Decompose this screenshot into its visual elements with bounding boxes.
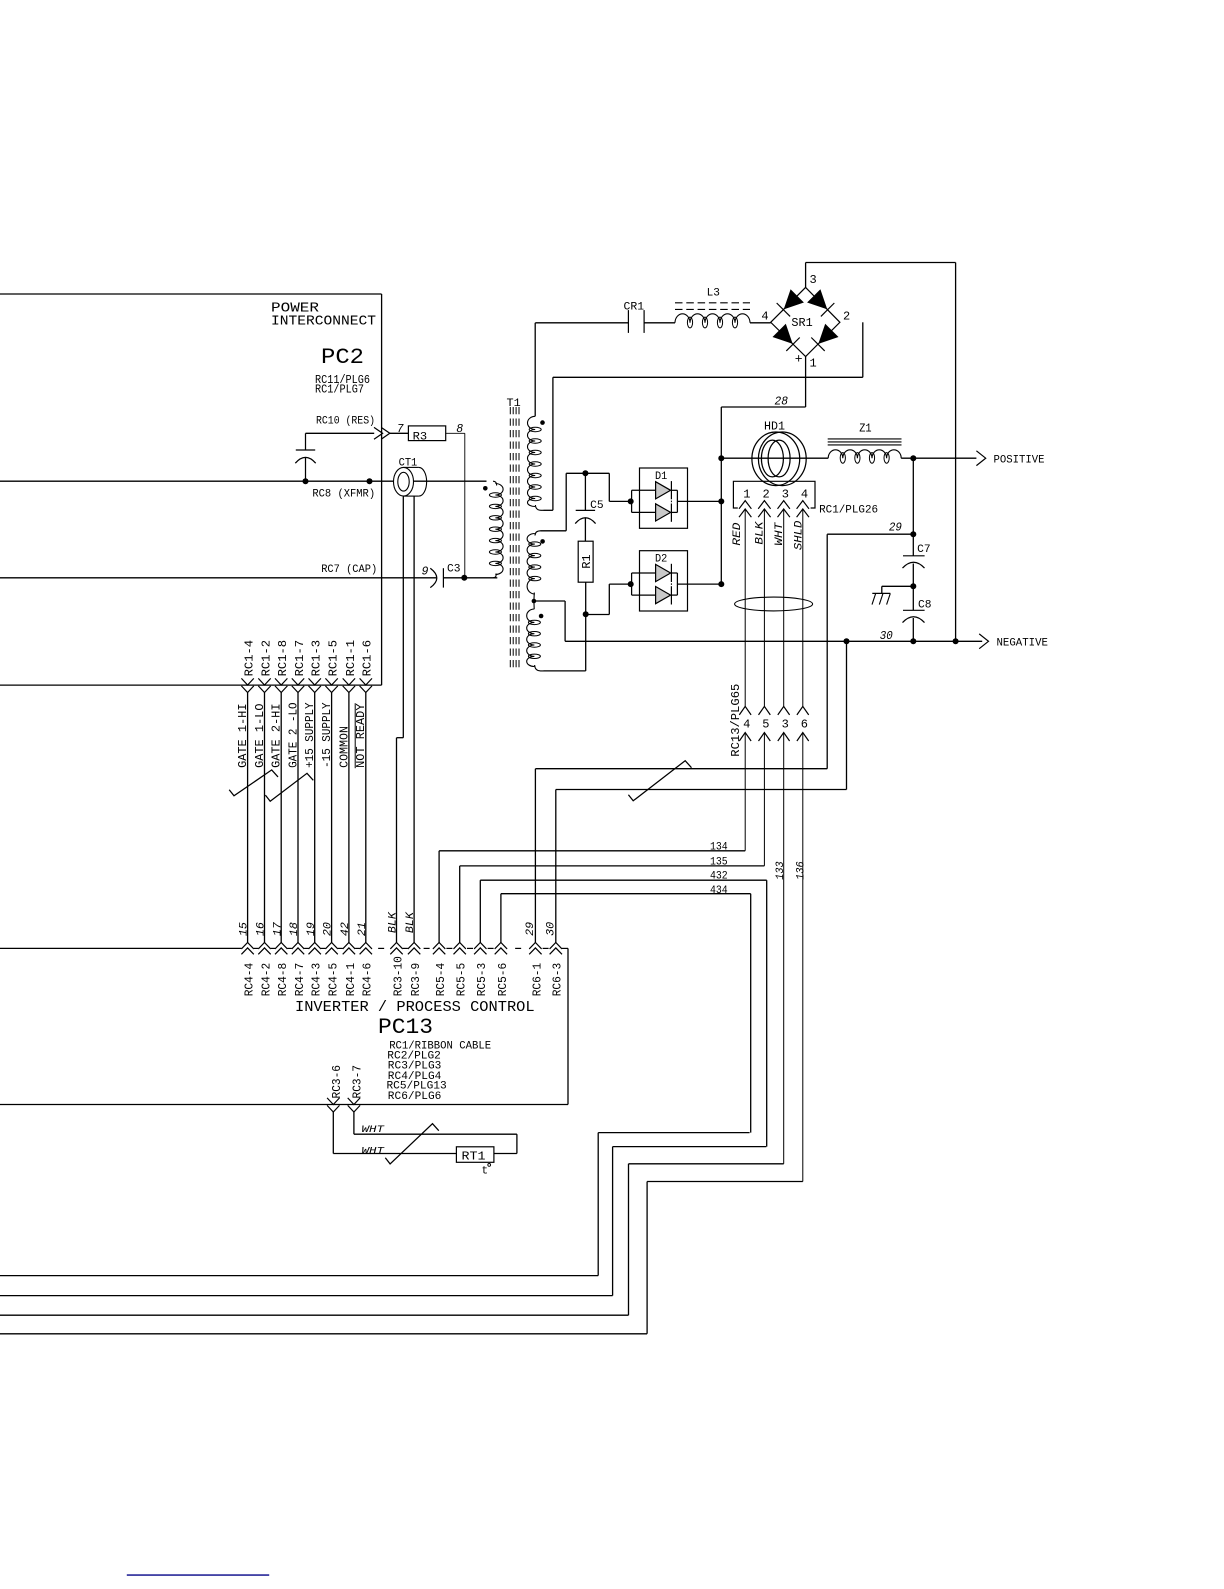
svg-text:RC4-5: RC4-5 bbox=[327, 963, 341, 997]
svg-text:WHT: WHT bbox=[362, 1124, 385, 1136]
svg-text:R3: R3 bbox=[413, 432, 428, 444]
svg-text:RC1-5: RC1-5 bbox=[327, 640, 341, 677]
svg-text:434: 434 bbox=[710, 885, 728, 897]
svg-text:RC1-7: RC1-7 bbox=[293, 640, 307, 677]
svg-text:RC6-1: RC6-1 bbox=[530, 963, 544, 997]
svg-text:RC1-4: RC1-4 bbox=[243, 640, 257, 677]
svg-text:RC5-6: RC5-6 bbox=[496, 963, 510, 997]
svg-text:WHT: WHT bbox=[362, 1145, 385, 1157]
svg-text:GATE 1-HI: GATE 1-HI bbox=[236, 704, 250, 768]
svg-text:4: 4 bbox=[761, 310, 768, 324]
svg-text:L3: L3 bbox=[707, 288, 720, 300]
svg-text:16: 16 bbox=[256, 922, 268, 936]
svg-text:C7: C7 bbox=[917, 544, 931, 556]
svg-text:NEGATIVE: NEGATIVE bbox=[997, 638, 1049, 650]
svg-text:CR1: CR1 bbox=[624, 302, 645, 314]
svg-text:RC1-2: RC1-2 bbox=[259, 640, 273, 677]
svg-text:RC4-3: RC4-3 bbox=[310, 963, 324, 997]
svg-text:RC4-2: RC4-2 bbox=[259, 963, 273, 997]
svg-text:t: t bbox=[482, 1165, 489, 1177]
svg-text:RC3-10: RC3-10 bbox=[391, 956, 405, 996]
svg-text:SHLD: SHLD bbox=[794, 520, 806, 550]
svg-text:RC13/PLG65: RC13/PLG65 bbox=[729, 684, 743, 757]
svg-text:18: 18 bbox=[289, 922, 301, 936]
svg-text:RC1-3: RC1-3 bbox=[310, 640, 324, 677]
svg-text:RC6-3: RC6-3 bbox=[551, 963, 565, 997]
svg-text:RC4-6: RC4-6 bbox=[361, 963, 375, 997]
svg-text:RT1: RT1 bbox=[462, 1150, 486, 1164]
svg-text:BLK: BLK bbox=[405, 911, 417, 933]
svg-text:RC1-6: RC1-6 bbox=[361, 640, 375, 677]
svg-text:136: 136 bbox=[795, 861, 807, 880]
svg-text:133: 133 bbox=[775, 861, 787, 880]
svg-text:8: 8 bbox=[456, 423, 463, 436]
svg-text:C8: C8 bbox=[918, 599, 932, 611]
svg-text:134: 134 bbox=[710, 842, 728, 854]
svg-text:BLK: BLK bbox=[755, 520, 767, 545]
svg-text:5: 5 bbox=[762, 718, 769, 732]
svg-text:WHT: WHT bbox=[774, 521, 786, 546]
svg-text:-15 SUPPLY: -15 SUPPLY bbox=[320, 702, 334, 768]
svg-text:2: 2 bbox=[762, 487, 769, 501]
svg-text:+15 SUPPLY: +15 SUPPLY bbox=[303, 702, 317, 768]
svg-text:29: 29 bbox=[525, 922, 537, 936]
svg-text:4: 4 bbox=[743, 718, 750, 732]
svg-text:RC5-4: RC5-4 bbox=[434, 963, 448, 997]
svg-text:29: 29 bbox=[889, 521, 902, 534]
svg-text:15: 15 bbox=[239, 922, 251, 936]
svg-text:GATE 2 -LO: GATE 2 -LO bbox=[286, 702, 300, 768]
svg-text:20: 20 bbox=[323, 922, 335, 936]
svg-text:GATE 1-LO: GATE 1-LO bbox=[253, 704, 267, 768]
svg-text:INVERTER / PROCESS CONTROL: INVERTER / PROCESS CONTROL bbox=[295, 1000, 535, 1016]
svg-text:RC5-3: RC5-3 bbox=[475, 963, 489, 997]
svg-text:RC1-8: RC1-8 bbox=[276, 640, 290, 677]
svg-text:RC3-9: RC3-9 bbox=[409, 963, 423, 997]
svg-text:RC1-1: RC1-1 bbox=[344, 640, 358, 677]
svg-text:Z1: Z1 bbox=[859, 423, 871, 436]
svg-text:POSITIVE: POSITIVE bbox=[994, 454, 1045, 466]
svg-text:RC4-4: RC4-4 bbox=[243, 963, 257, 997]
svg-text:RC4-7: RC4-7 bbox=[293, 963, 307, 997]
svg-text:BLK: BLK bbox=[388, 911, 400, 933]
svg-text:3: 3 bbox=[810, 273, 817, 287]
svg-text:9: 9 bbox=[422, 565, 429, 578]
svg-text:RC7 (CAP): RC7 (CAP) bbox=[321, 564, 377, 576]
svg-text:NOT READY: NOT READY bbox=[354, 704, 368, 768]
svg-text:RC10 (RES): RC10 (RES) bbox=[316, 416, 375, 428]
svg-text:SR1: SR1 bbox=[791, 317, 812, 330]
svg-text:+: + bbox=[795, 351, 803, 366]
svg-text:1: 1 bbox=[810, 356, 817, 370]
svg-text:1: 1 bbox=[743, 487, 750, 501]
svg-text:RC4-1: RC4-1 bbox=[344, 963, 358, 997]
svg-text:17: 17 bbox=[272, 922, 284, 936]
svg-text:30: 30 bbox=[880, 630, 893, 643]
svg-text:PC2: PC2 bbox=[321, 345, 364, 370]
svg-text:RC1/PLG26: RC1/PLG26 bbox=[819, 505, 878, 517]
svg-text:R1: R1 bbox=[581, 554, 594, 569]
svg-text:COMMON: COMMON bbox=[337, 726, 351, 768]
svg-text:PC13: PC13 bbox=[378, 1015, 433, 1040]
svg-text:RC3-7: RC3-7 bbox=[351, 1065, 365, 1099]
svg-text:2: 2 bbox=[843, 310, 850, 324]
svg-text:RC6/PLG6: RC6/PLG6 bbox=[388, 1091, 442, 1103]
svg-text:RC1/PLG7: RC1/PLG7 bbox=[315, 384, 364, 397]
svg-text:RED: RED bbox=[732, 522, 744, 545]
svg-text:21: 21 bbox=[357, 922, 369, 936]
svg-text:19: 19 bbox=[306, 922, 318, 936]
svg-text:RC4-8: RC4-8 bbox=[276, 963, 290, 997]
svg-text:30: 30 bbox=[545, 922, 557, 936]
svg-text:3: 3 bbox=[782, 718, 789, 732]
svg-text:RC3-6: RC3-6 bbox=[330, 1065, 344, 1099]
svg-text:4: 4 bbox=[801, 487, 808, 501]
svg-text:C3: C3 bbox=[447, 563, 461, 575]
svg-text:GATE 2-HI: GATE 2-HI bbox=[270, 704, 284, 768]
svg-text:D1: D1 bbox=[655, 471, 668, 483]
svg-text:D2: D2 bbox=[655, 554, 667, 566]
svg-text:6: 6 bbox=[801, 718, 808, 732]
svg-text:RC8 (XFMR): RC8 (XFMR) bbox=[312, 488, 375, 500]
svg-text:3: 3 bbox=[782, 487, 789, 501]
svg-text:RC5-5: RC5-5 bbox=[455, 963, 469, 997]
svg-text:42: 42 bbox=[340, 922, 352, 936]
svg-text:INTERCONNECT: INTERCONNECT bbox=[271, 315, 376, 330]
